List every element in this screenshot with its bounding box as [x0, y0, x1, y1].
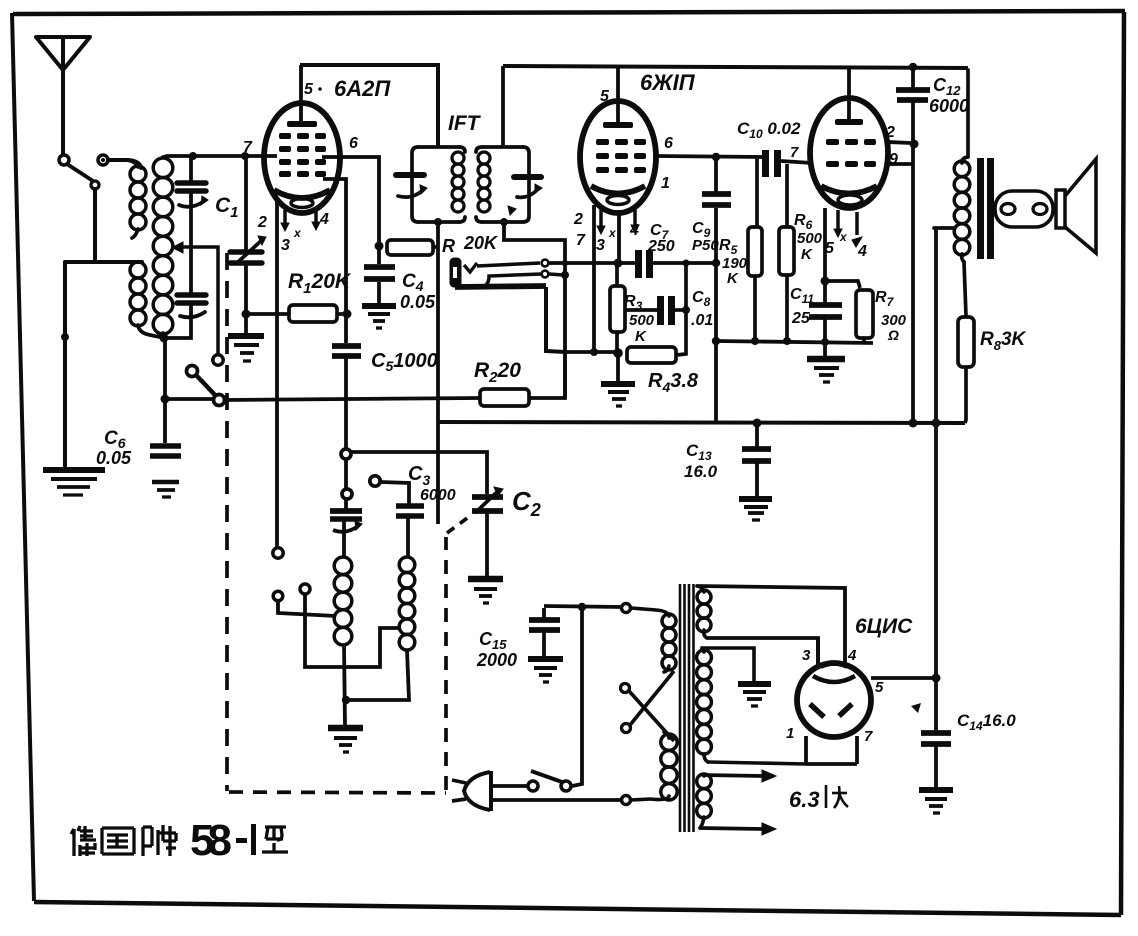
wire main bus [169, 398, 479, 400]
main vertical line [436, 222, 440, 524]
node [821, 338, 829, 346]
pin wires [806, 638, 936, 764]
wire [344, 459, 348, 489]
antenna [36, 37, 90, 70]
svg-text:2000: 2000 [476, 650, 517, 670]
resistor R1 [250, 305, 345, 322]
resistor R4 [627, 263, 686, 363]
tube V2 6Zh1P [580, 66, 656, 213]
PT heater winding [700, 775, 704, 828]
wire to C2 [351, 452, 487, 494]
B+ vertical [934, 228, 938, 678]
svg-text:K: K [635, 328, 647, 345]
svg-text:4: 4 [857, 243, 867, 260]
ground [43, 470, 105, 495]
oscillator coil 1 [334, 557, 352, 645]
node [343, 310, 352, 319]
svg-text:6000: 6000 [420, 487, 456, 504]
wire to V3 grid [781, 161, 812, 163]
antenna switch [59, 155, 69, 165]
svg-text:4: 4 [319, 211, 329, 228]
coil tap arrow [172, 242, 218, 354]
node [161, 395, 170, 404]
heater pin [597, 207, 639, 234]
tube V1 6A2P [264, 65, 340, 213]
plate rail V1 [300, 65, 438, 146]
svg-text:2: 2 [257, 214, 267, 231]
svg-text:7: 7 [790, 144, 799, 161]
band switch terminals [273, 548, 283, 558]
node [342, 696, 350, 704]
wire grid top [167, 154, 277, 158]
svg-text:20K: 20K [463, 233, 499, 253]
ground [919, 790, 953, 813]
mains switch [528, 771, 571, 791]
B+ rail right [503, 66, 968, 68]
svg-text:2: 2 [885, 124, 895, 141]
tube V4 rectifier [797, 663, 871, 737]
svg-text:C10 0.02: C10 0.02 [737, 119, 801, 141]
capacitor C4 [364, 249, 395, 303]
coil tap wire [305, 594, 400, 667]
node circle [341, 449, 351, 459]
node [500, 218, 508, 226]
node [909, 419, 918, 428]
svg-text:C1416.0: C1416.0 [957, 711, 1016, 733]
svg-text:0.05: 0.05 [96, 448, 132, 468]
node [909, 63, 917, 71]
svg-text:K: K [801, 246, 813, 263]
node [910, 140, 919, 149]
ground [739, 499, 772, 520]
node [682, 306, 690, 314]
capacitor C8 [625, 296, 686, 325]
ground [328, 728, 363, 752]
wire [344, 645, 345, 726]
capacitor C10 [762, 150, 781, 177]
tap terminal [300, 584, 310, 594]
capacitor C9 [702, 159, 731, 262]
terminal [622, 796, 631, 805]
wire switch riser [572, 607, 582, 786]
node [562, 260, 568, 266]
wire plate top [697, 586, 845, 664]
node [613, 348, 623, 358]
resistor R2 [480, 352, 565, 406]
capacitor C3 terminal [370, 476, 380, 486]
svg-text:4: 4 [847, 647, 857, 664]
node [160, 334, 169, 343]
svg-text:C51000: C51000 [371, 350, 438, 374]
capacitor C1 second section [177, 292, 206, 297]
capacitor C3 [381, 482, 424, 557]
resistor R 20K [387, 240, 438, 255]
svg-text:2: 2 [573, 211, 583, 228]
capacitor C2 [472, 487, 503, 577]
node [932, 674, 941, 683]
IFT right section [476, 147, 542, 222]
svg-text:1: 1 [661, 175, 670, 192]
svg-text:5: 5 [875, 679, 884, 696]
ground [468, 579, 503, 603]
svg-text:K: K [727, 270, 739, 287]
wire grid4 [323, 179, 346, 343]
voltage selector X [621, 671, 675, 741]
svg-text:.01: .01 [691, 312, 713, 329]
capacitor C7 [635, 250, 653, 278]
node [375, 242, 384, 251]
node [242, 310, 251, 319]
antenna coil primary winding 2 [138, 325, 160, 337]
wire [93, 189, 97, 260]
ground [601, 356, 635, 406]
svg-text:3: 3 [281, 237, 290, 254]
svg-text:500: 500 [797, 230, 823, 247]
phone jack [450, 258, 565, 352]
capacitor C11 [809, 283, 842, 342]
svg-text:5: 5 [304, 81, 314, 98]
svg-text:Ω: Ω [887, 327, 899, 343]
IFT left section [396, 147, 465, 222]
wire plate [888, 142, 911, 143]
wire cathode [823, 208, 827, 280]
wire screen [888, 162, 913, 166]
node [783, 337, 791, 345]
svg-text:6: 6 [664, 135, 673, 152]
capacitor C5 [332, 346, 361, 448]
resistor R5 [748, 158, 762, 341]
svg-text:25: 25 [791, 310, 811, 327]
speaker [995, 159, 1096, 253]
antenna coil primary winding 1 [108, 160, 138, 167]
terminal [622, 604, 631, 613]
svg-text:x: x [608, 226, 617, 240]
wire pin6 [322, 157, 379, 243]
svg-text:x: x [293, 226, 302, 240]
svg-text:500: 500 [629, 312, 655, 329]
node [712, 337, 720, 345]
wire plate 2 [707, 638, 818, 664]
ground [807, 344, 845, 382]
node [61, 333, 69, 341]
wire cathode pin [617, 210, 621, 262]
wire [501, 66, 505, 146]
wire plate [656, 156, 765, 157]
svg-text:R120K: R120K [288, 270, 352, 297]
node [932, 419, 941, 428]
heater lead arrow [700, 823, 776, 835]
padder capacitor [230, 156, 266, 333]
capacitor C6 [150, 402, 181, 497]
resistor R3 [610, 265, 625, 351]
detector wire [549, 261, 635, 265]
node circle [342, 489, 352, 499]
resistor R6 [779, 164, 794, 341]
svg-text:3: 3 [596, 237, 605, 254]
wire B rail [438, 422, 965, 423]
node [241, 152, 249, 160]
wire grid pin [592, 205, 596, 351]
svg-text:6000: 6000 [929, 96, 969, 116]
band switch [187, 366, 225, 406]
svg-text:6ЖIП: 6ЖIП [640, 70, 696, 95]
wire IFT to detector [504, 222, 565, 397]
wire [493, 784, 528, 788]
wire [492, 798, 621, 802]
capacitor C12 [896, 67, 930, 422]
svg-text:5: 5 [600, 88, 610, 105]
wire [653, 261, 716, 265]
power transformer core [680, 584, 694, 832]
ground HV center tap [738, 684, 771, 706]
wire pin2 down [275, 198, 279, 548]
oscillator variable capacitor [330, 499, 362, 557]
heater pin [281, 210, 320, 231]
variable capacitor C1 [189, 156, 193, 180]
output transformer [934, 70, 968, 316]
oscillator coil 2 [399, 557, 415, 650]
wire [278, 601, 336, 616]
wire [65, 260, 142, 264]
node [614, 259, 623, 268]
node [751, 337, 759, 345]
PT HV winding lower [702, 648, 806, 764]
svg-text:0.05: 0.05 [400, 292, 436, 312]
svg-text:R220: R220 [474, 359, 521, 386]
svg-text:R43.8: R43.8 [648, 370, 699, 395]
node [561, 271, 569, 279]
svg-text:250: 250 [647, 238, 675, 255]
ground [228, 336, 264, 361]
node [712, 153, 720, 161]
svg-text:R: R [442, 236, 455, 256]
node [821, 277, 830, 286]
svg-text:7: 7 [243, 139, 253, 156]
node [189, 152, 197, 160]
wire [163, 338, 167, 397]
heater lead arrow [703, 770, 776, 782]
svg-text:6.3: 6.3 [789, 787, 820, 812]
svg-text:58: 58 [190, 816, 232, 865]
svg-text:6ЦИС: 6ЦИС [855, 615, 913, 638]
ground [362, 306, 396, 328]
wire [544, 606, 622, 607]
terminal [213, 355, 223, 365]
capacitor C13 [742, 425, 771, 497]
svg-text:3: 3 [802, 647, 811, 664]
node [753, 419, 762, 428]
resistor R7 [825, 281, 873, 343]
wire AVC rail [565, 350, 617, 354]
PT HV winding upper [697, 586, 707, 638]
wire [349, 650, 409, 700]
node [683, 260, 690, 267]
ground [528, 659, 563, 682]
capacitor C15 [529, 608, 560, 657]
node [434, 218, 442, 226]
svg-text:IFT: IFT [448, 112, 482, 135]
heater pin [834, 210, 862, 247]
svg-text:R83K: R83K [980, 329, 1027, 353]
svg-text:7: 7 [576, 232, 586, 249]
antenna coil secondary [153, 158, 173, 334]
capacitor C14 [921, 678, 951, 788]
svg-text:16.0: 16.0 [684, 462, 718, 481]
node [590, 348, 598, 356]
wire [63, 262, 67, 466]
node [578, 603, 586, 611]
wire [103, 160, 141, 168]
tube V3 output [810, 66, 888, 208]
svg-text:1: 1 [786, 725, 794, 742]
wire [714, 263, 718, 422]
mains plug [452, 771, 491, 811]
svg-text:P50: P50 [692, 237, 719, 254]
bias rail [716, 341, 873, 343]
PT primary upper [631, 608, 669, 672]
svg-text:7: 7 [864, 728, 873, 745]
PT primary lower [631, 732, 669, 800]
pointer mark [911, 703, 921, 713]
svg-text:6А2П: 6А2П [334, 76, 391, 101]
gang dashed link [227, 253, 470, 793]
svg-text:6: 6 [349, 135, 358, 152]
node [712, 259, 720, 267]
title text [71, 825, 288, 856]
resistor R8 [958, 317, 974, 423]
